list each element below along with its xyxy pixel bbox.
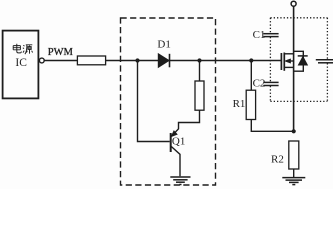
capacitor C1 bbox=[263, 33, 278, 35]
ground (R2) bbox=[282, 178, 305, 185]
resistor (emitter) bbox=[195, 81, 204, 110]
resistor (gate series) bbox=[77, 56, 105, 65]
resistor R2 bbox=[289, 141, 299, 169]
svg-text:IC: IC bbox=[15, 57, 27, 69]
wire emitter path bbox=[172, 110, 200, 136]
body arrow bbox=[289, 60, 294, 62]
wire base bbox=[138, 61, 170, 142]
MOSFET M1 bbox=[281, 51, 307, 71]
svg-text:C2: C2 bbox=[253, 77, 266, 89]
terminal PWM bbox=[39, 58, 44, 63]
label 电源 (drawn strokes) bbox=[13, 44, 32, 54]
wire main bbox=[106, 60, 282, 62]
svg-text:C1: C1 bbox=[253, 29, 266, 41]
node emitter tap bbox=[197, 58, 201, 62]
source stub bbox=[284, 66, 293, 68]
resistor R1 bbox=[246, 90, 255, 119]
gate bar bbox=[280, 53, 282, 70]
svg-text:PWM: PWM bbox=[48, 47, 74, 58]
terminal drain (top) bbox=[291, 1, 296, 6]
svg-text:R2: R2 bbox=[271, 153, 284, 165]
wire bbox=[293, 169, 295, 177]
node source junction bbox=[292, 129, 296, 133]
svg-text:D1: D1 bbox=[157, 39, 170, 51]
drain stub bbox=[284, 53, 293, 55]
diode D1 bbox=[158, 54, 169, 68]
node gate tap bbox=[249, 58, 253, 62]
wire bbox=[44, 60, 77, 62]
wire drain-source vertical bbox=[293, 6, 295, 131]
dotted parasitic box bbox=[270, 18, 327, 102]
capacitor C2 bbox=[263, 81, 278, 83]
wire bbox=[251, 120, 293, 132]
svg-text:Q1: Q1 bbox=[172, 136, 185, 148]
channel bar bbox=[283, 53, 285, 71]
power IC box bbox=[3, 31, 39, 99]
body diode bbox=[298, 57, 307, 66]
svg-text:R1: R1 bbox=[233, 98, 246, 110]
node base tap bbox=[135, 58, 139, 62]
capacitor Cds (right, unlabeled) bbox=[316, 59, 333, 61]
body diode loop bbox=[294, 51, 304, 71]
ground (Q1) bbox=[170, 177, 190, 185]
dashed box driver bbox=[121, 18, 216, 185]
wire bbox=[199, 61, 201, 82]
wire bbox=[250, 61, 252, 91]
transistor Q1 bbox=[170, 133, 172, 152]
wire collector bbox=[171, 147, 180, 177]
